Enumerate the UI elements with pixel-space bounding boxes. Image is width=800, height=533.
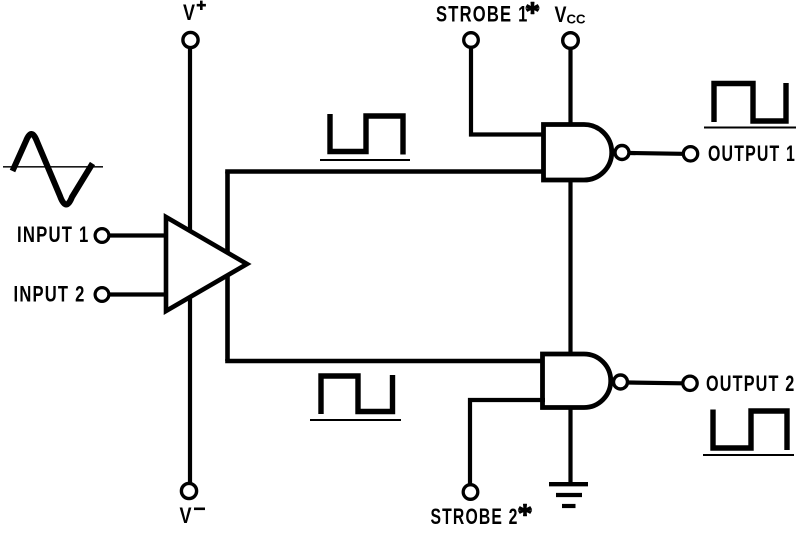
terminal OUTPUT 2 (683, 376, 697, 390)
wire gate 1 output (630, 151, 683, 156)
terminal V+ (183, 32, 198, 47)
terminal Vcc (563, 33, 579, 49)
wire STROBE 1 to gate 1 (471, 49, 545, 135)
wire V+ to V- supply line (188, 49, 192, 483)
inverter bubble U2 (614, 375, 628, 389)
square wave symbol above upper wire (330, 114, 403, 155)
wire STROBE 2 to gate 2 (470, 400, 545, 484)
svg-text:INPUT 1: INPUT 1 (17, 222, 90, 247)
terminal INPUT 2 (95, 288, 109, 302)
wire INPUT 2 to comparator (110, 292, 168, 296)
terminal V- (181, 483, 196, 498)
op-amp comparator triangle (166, 217, 247, 311)
square wave symbol below lower wire (321, 375, 393, 414)
svg-text:CC: CC (567, 12, 586, 27)
svg-text:V: V (180, 503, 192, 528)
svg-text:INPUT 2: INPUT 2 (14, 282, 86, 307)
terminal STROBE 2 (463, 485, 478, 500)
sine wave input symbol (13, 134, 93, 204)
NAND gate U2 (543, 354, 611, 408)
wire upper feedback to gate 1 (228, 172, 546, 174)
svg-text:V: V (183, 0, 195, 25)
terminal STROBE 1 (464, 33, 479, 48)
square wave symbol below OUTPUT 2 (713, 410, 787, 451)
wire Vcc down to ground (568, 50, 572, 484)
wire INPUT 1 to comparator (110, 233, 168, 237)
svg-text:STROBE 2: STROBE 2 (431, 504, 519, 529)
inverter bubble U1 (615, 146, 629, 160)
svg-text:OUTPUT 1: OUTPUT 1 (708, 141, 796, 166)
ground (549, 484, 588, 506)
wire lower feedback to gate 2 (228, 359, 546, 361)
svg-text:STROBE 1: STROBE 1 (436, 2, 529, 27)
svg-text:OUTPUT 2: OUTPUT 2 (706, 371, 796, 396)
NAND gate U1 (544, 125, 612, 181)
terminal OUTPUT 1 (683, 147, 697, 161)
svg-text:V: V (555, 2, 567, 27)
wire output bus vertical (225, 172, 230, 362)
sine wave axis line (3, 166, 103, 168)
square wave symbol above OUTPUT 1 (714, 83, 786, 122)
wire gate 2 output (628, 380, 682, 385)
terminal INPUT 1 (95, 229, 109, 243)
